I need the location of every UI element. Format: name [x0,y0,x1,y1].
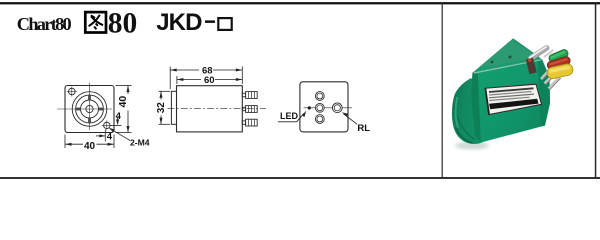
red terminal [546,56,571,71]
svg-text:60: 60 [204,75,215,86]
center cross horizontal [57,108,112,110]
silver pin thin rear [544,50,554,57]
circle center small [86,105,93,112]
svg-text:2-M4: 2-M4 [130,137,150,147]
big circle outer [72,92,107,127]
dim 68 [170,67,242,90]
svg-text:RL: RL [357,123,370,134]
LED dot [308,106,311,109]
front face left shading [471,73,481,143]
svg-text:40: 40 [117,96,129,108]
small top screws [491,61,494,64]
RL circle [332,103,342,113]
dark pin stub [526,58,537,74]
center line through sockets [304,107,353,109]
svg-text:Chart80: Chart80 [17,14,72,34]
bottom pins [541,68,560,89]
svg-text:4: 4 [116,111,122,122]
svg-text:4: 4 [107,131,113,142]
red dot on stub [528,58,532,62]
socket circle top [315,92,324,101]
dim 60 [177,76,242,84]
dim 40 bottom [65,135,114,149]
title CJK glyph 图 (drawn) [85,12,106,32]
cylinder bottom shadow [456,127,473,143]
silver pin top [527,44,550,62]
svg-text:JKD: JKD [156,9,202,36]
svg-text:80: 80 [108,7,138,39]
cylinder disc seam [454,103,475,140]
relay body cylinder (left boss) [452,78,486,144]
top rule [0,2,600,4]
dim 4 vertical (hole offset) [111,117,122,126]
label [485,84,542,114]
center line [168,108,267,110]
dim 40 right [116,86,132,133]
svg-text:LED: LED [280,111,299,121]
cylinder rim highlight [456,97,458,128]
photo frame right border [595,2,597,178]
ridge highlight [474,60,542,73]
relay body top face [473,39,542,73]
yellow terminal [546,63,574,80]
label 2-M4 with leader [109,128,130,141]
title empty box [218,18,231,30]
bottom rule [0,177,600,179]
socket circle bottom [315,115,324,124]
side body rectangle [177,86,243,132]
slots on ring [76,95,104,123]
pins (3) [242,92,257,126]
apex light edge [513,39,539,58]
dim 4 horizontal (hole offset) [96,130,105,142]
dim 32 [159,91,171,124]
green terminal [548,48,570,63]
circle ring 3 [81,100,99,118]
ground shadow [455,142,489,150]
top face upper part [480,39,539,67]
photo frame left border [442,2,443,178]
mounting hole top-left [67,87,77,97]
relay body front face [471,59,550,143]
socket circle middle [315,103,324,112]
svg-text:32: 32 [156,102,167,114]
right side darker band [538,59,551,127]
center cross vertical [89,83,91,130]
front square body [65,86,114,133]
bottom view square [300,82,348,132]
circle ring 2 [76,95,104,123]
svg-text:40: 40 [84,141,96,152]
side flange plate [171,91,176,124]
mounting hole bottom-right [102,120,112,130]
